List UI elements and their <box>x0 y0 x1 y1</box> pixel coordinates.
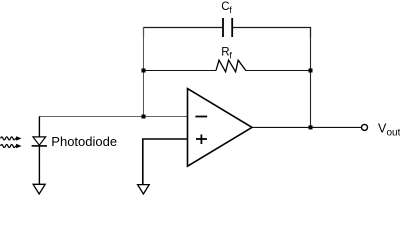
svg-text:Photodiode: Photodiode <box>51 134 117 149</box>
ground: below non-inverting input <box>138 185 150 194</box>
terminal: output circle <box>362 124 368 130</box>
label Photodiode <box>51 134 117 149</box>
resistor Rf zigzag <box>216 60 246 72</box>
wire: top capacitor loop right segment <box>233 28 311 38</box>
wire: left feedback vertical <box>143 27 145 117</box>
ground: below photodiode <box>33 184 45 194</box>
capacitor C1 plates <box>223 18 232 37</box>
light arrow 2 (wavy) <box>1 144 22 148</box>
op-amp U1 <box>188 89 253 167</box>
svg-text:out: out <box>387 128 400 139</box>
wire: top capacitor loop left segment <box>144 28 223 38</box>
node: junction dot left resistor <box>142 69 146 73</box>
wire: output <box>252 126 361 128</box>
wire: photodiode bottom vertical <box>38 146 40 184</box>
label Rf <box>221 47 232 61</box>
svg-text:f: f <box>229 5 232 15</box>
node: junction dot inverting input <box>142 115 146 119</box>
label Cf <box>221 1 232 15</box>
photodiode D1 <box>32 137 47 146</box>
wire: resistor branch left <box>144 70 217 72</box>
wire: resistor branch right <box>246 70 311 72</box>
wire: photodiode top vertical <box>38 117 40 137</box>
node: junction dot right resistor <box>309 69 313 73</box>
light arrow 1 (wavy) <box>1 136 22 140</box>
node: junction dot output <box>309 125 313 129</box>
wire: inverting input <box>39 116 188 118</box>
wire: non-inverting input <box>143 139 188 184</box>
wire: right feedback vertical <box>310 27 312 128</box>
svg-text:f: f <box>229 51 232 61</box>
label Vout <box>378 121 400 138</box>
svg-text:R: R <box>221 47 229 59</box>
